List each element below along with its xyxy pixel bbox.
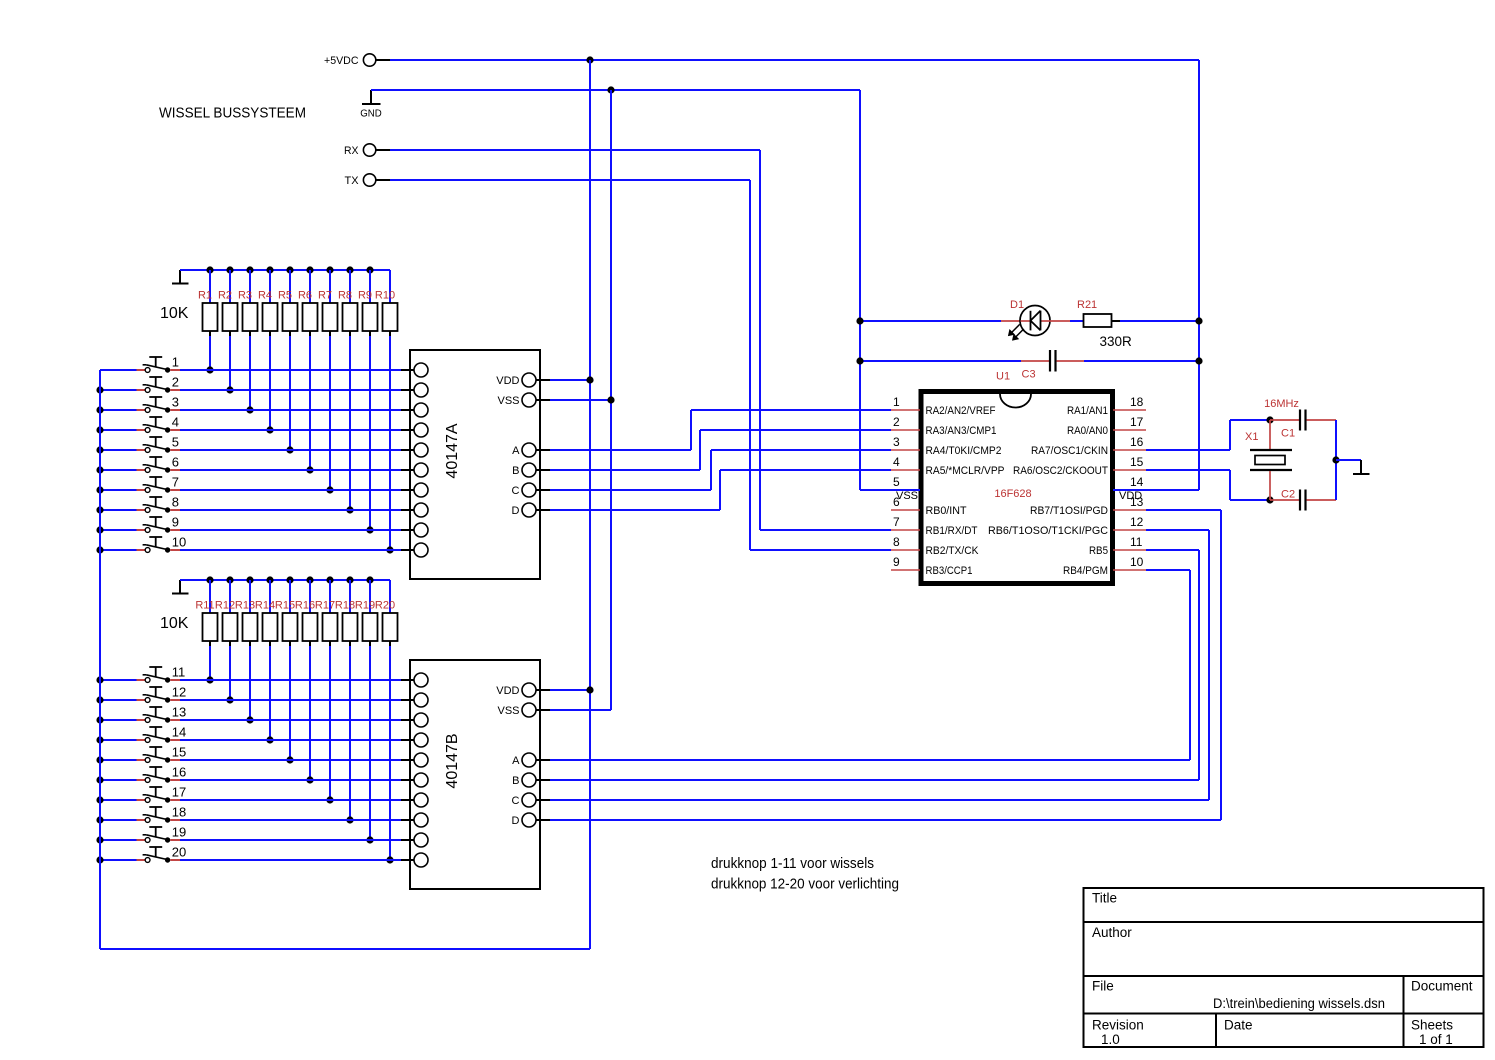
svg-text:16: 16 [172, 765, 186, 780]
wire U1 pin 15 to crystal bottom node [1146, 470, 1270, 500]
svg-text:18: 18 [1130, 395, 1144, 409]
svg-text:C1: C1 [1281, 428, 1295, 440]
svg-text:R18: R18 [335, 600, 355, 612]
svg-text:3: 3 [893, 435, 900, 449]
wire +5V vertical right x1199 [1198, 60, 1200, 490]
svg-text:D1: D1 [1010, 299, 1024, 311]
junction R12 / switch row 12 [226, 696, 233, 703]
svg-text:drukknop 1-11 voor wissels: drukknop 1-11 voor wissels [711, 855, 874, 872]
wire resistor bank A top bus [180, 269, 390, 271]
junction GND / x611 [607, 86, 614, 93]
connector TX [345, 174, 391, 187]
resistor R15 10K [275, 580, 298, 760]
pushbutton switch 10 [137, 537, 181, 553]
svg-text:RA6/OSC2/CKOOUT: RA6/OSC2/CKOOUT [1013, 465, 1108, 477]
svg-text:B: B [512, 465, 519, 477]
svg-text:17: 17 [1130, 415, 1144, 429]
wire switch 10 row to encoder [180, 549, 401, 551]
junction R3 / switch row 3 [246, 406, 253, 413]
encoder 40147B input pin 17 [401, 793, 428, 807]
encoder 40147B input pin 12 [401, 693, 428, 707]
pushbutton switch 7 [137, 477, 181, 493]
junction left bus / row 6 [96, 466, 103, 473]
svg-text:RB4/PGM: RB4/PGM [1063, 565, 1108, 577]
wire switch 16 left to bus [100, 779, 137, 781]
wire TX into U1 pin 8 [750, 549, 891, 551]
capacitor C2 [1270, 489, 1336, 511]
wire switch 2 row to encoder [180, 389, 401, 391]
svg-text:R19: R19 [355, 600, 375, 612]
wire bottom rail [100, 948, 590, 950]
pushbutton switch 16 [137, 767, 181, 783]
junction bus / R12 [226, 576, 233, 583]
svg-text:1: 1 [893, 395, 900, 409]
svg-text:RB0/INT: RB0/INT [926, 505, 967, 517]
pushbutton switch 13 [137, 707, 181, 723]
svg-text:16: 16 [1130, 435, 1144, 449]
junction +5VDC / x590 [586, 56, 593, 63]
svg-text:GND: GND [360, 108, 382, 120]
wire C3 to +5V [1084, 360, 1199, 362]
junction R15 / switch row 15 [286, 756, 293, 763]
wire switch 4 left to bus [100, 429, 137, 431]
U1 pin 17 stub [1113, 415, 1146, 430]
junction crystal ground node [1332, 456, 1339, 463]
pushbutton switch 1 [137, 357, 181, 373]
svg-text:RB6/T1OSO/T1CKI/PGC: RB6/T1OSO/T1CKI/PGC [988, 525, 1108, 537]
wire GND vertical x611 [610, 90, 612, 710]
wire bus corner down to R10 [389, 270, 391, 303]
wire switch 6 left to bus [100, 469, 137, 471]
encoder 40147B pin D [512, 813, 550, 827]
wire switch 7 row to encoder [180, 489, 401, 491]
junction R7 / switch row 7 [326, 486, 333, 493]
svg-text:C3: C3 [1022, 369, 1036, 381]
resistor R16 10K [295, 580, 318, 780]
encoder 40147A input pin 6 [401, 463, 428, 477]
svg-text:D: D [512, 505, 520, 517]
pushbutton switch 15 [137, 747, 181, 763]
svg-text:14: 14 [172, 725, 186, 740]
pushbutton switch 19 [137, 827, 181, 843]
encoder 40147B pin A [512, 753, 550, 767]
resistor R2 10K [218, 270, 238, 390]
svg-text:VSS: VSS [497, 395, 519, 407]
encoder 40147A input pin 10 [401, 543, 428, 557]
wire 40147A output D to PIC pin 4 [550, 470, 891, 510]
svg-text:drukknop 12-20 voor verlichtin: drukknop 12-20 voor verlichting [711, 876, 899, 893]
wire left common bus vertical [99, 370, 101, 949]
junction left bus / row 3 [96, 406, 103, 413]
svg-text:VDD: VDD [496, 375, 519, 387]
resistor R13 10K [235, 580, 258, 720]
resistor R6 10K [298, 270, 318, 470]
junction R20 / switch row 20 [386, 856, 393, 863]
junction bus / R14 [266, 576, 273, 583]
junction bus / R17 [326, 576, 333, 583]
svg-text:15: 15 [172, 745, 186, 760]
microcontroller U1 16F628 body [921, 392, 1113, 584]
junction R2 / switch row 2 [226, 386, 233, 393]
wire switch 12 left to bus [100, 699, 137, 701]
junction bus / R16 [306, 576, 313, 583]
junction left bus / row 17 [96, 796, 103, 803]
wire switch 5 row to encoder [180, 449, 401, 451]
encoder 40147B input pin 11 [401, 673, 428, 687]
U1 pin 2 stub [891, 415, 920, 430]
svg-text:R5: R5 [278, 290, 292, 302]
svg-text:3: 3 [172, 395, 179, 410]
U1 pin 15 stub [1113, 455, 1146, 470]
U1 pin 5 stub [893, 475, 900, 489]
encoder 40147A input pin 3 [401, 403, 428, 417]
junction bus / R2 [226, 266, 233, 273]
wire switch 1 row to encoder [180, 369, 401, 371]
junction left bus / row 7 [96, 486, 103, 493]
svg-text:Author: Author [1092, 925, 1132, 940]
svg-text:11: 11 [172, 665, 186, 680]
svg-text:10: 10 [172, 535, 186, 550]
wire 40147A output B to PIC pin 2 [550, 430, 891, 470]
pushbutton switch 9 [137, 517, 181, 533]
svg-text:RA7/OSC1/CKIN: RA7/OSC1/CKIN [1031, 445, 1108, 457]
svg-text:R3: R3 [238, 290, 252, 302]
svg-text:R2: R2 [218, 290, 232, 302]
title block frame [1084, 888, 1484, 1047]
wire switch 13 row to encoder [180, 719, 401, 721]
svg-text:R12: R12 [215, 600, 235, 612]
crystal X1 16MHz [1245, 398, 1299, 500]
svg-text:R4: R4 [258, 290, 272, 302]
pushbutton switch 4 [137, 417, 181, 433]
svg-text:VSS: VSS [497, 705, 519, 717]
encoder 40147B pin VSS [497, 703, 550, 717]
svg-text:R6: R6 [298, 290, 312, 302]
junction bus / R5 [286, 266, 293, 273]
svg-text:X1: X1 [1245, 431, 1258, 443]
junction bus / R7 [326, 266, 333, 273]
junction R11 / switch row 11 [206, 676, 213, 683]
resistor R7 10K [318, 270, 338, 490]
svg-text:10: 10 [1130, 555, 1144, 569]
wire TX horizontal [390, 179, 750, 181]
pushbutton switch 6 [137, 457, 181, 473]
svg-text:12: 12 [1130, 515, 1144, 529]
svg-text:17: 17 [172, 785, 186, 800]
U1 pin 1 stub [891, 395, 920, 410]
wire bus corner down to R20 [389, 580, 391, 613]
svg-text:Date: Date [1224, 1018, 1253, 1033]
svg-text:R10: R10 [375, 290, 395, 302]
encoder 40147A pin B [512, 463, 550, 477]
svg-text:Document: Document [1411, 979, 1473, 994]
resistor R11 10K [195, 580, 217, 680]
junction left bus / row 4 [96, 426, 103, 433]
wire +5V to U1 VDD pin 14 [1113, 489, 1199, 491]
junction +5V vertical / R21 row [1195, 317, 1202, 324]
svg-text:7: 7 [172, 475, 179, 490]
pushbutton switch 20 [137, 847, 181, 863]
resistor R21 330R [1077, 299, 1120, 327]
junction R16 / switch row 16 [306, 776, 313, 783]
svg-text:9: 9 [893, 555, 900, 569]
encoder 40147B input pin 20 [401, 853, 428, 867]
U1 pin 8 stub [891, 535, 920, 550]
U1 pin 18 stub [1113, 395, 1146, 410]
junction R5 / switch row 5 [286, 446, 293, 453]
capacitor C1 [1270, 410, 1336, 440]
wire switch 7 left to bus [100, 489, 137, 491]
svg-text:C2: C2 [1281, 489, 1295, 501]
U1 pin 13 stub [1113, 495, 1146, 510]
encoder 40147A pin A [512, 443, 550, 457]
svg-text:7: 7 [893, 515, 900, 529]
svg-text:Revision: Revision [1092, 1018, 1144, 1033]
svg-text:VSS: VSS [896, 490, 918, 502]
svg-text:1.0: 1.0 [1101, 1032, 1120, 1047]
svg-text:RB5: RB5 [1089, 545, 1108, 557]
connector +5VDC [324, 54, 390, 67]
U1 pin 14 stub [1130, 475, 1144, 489]
junction left bus / row 16 [96, 776, 103, 783]
junction R1 / switch row 1 [206, 366, 213, 373]
junction left bus / row 5 [96, 446, 103, 453]
svg-text:1 of 1: 1 of 1 [1419, 1032, 1453, 1047]
wire switch 11 left to bus [100, 679, 137, 681]
svg-text:10K: 10K [160, 615, 189, 632]
junction R4 / switch row 4 [266, 426, 273, 433]
U1 pin 7 stub [891, 515, 920, 530]
svg-text:14: 14 [1130, 475, 1144, 489]
resistor R12 10K [215, 580, 238, 700]
wire switch 20 left to bus [100, 859, 137, 861]
pushbutton switch 8 [137, 497, 181, 513]
capacitor C3 [1021, 350, 1084, 381]
pushbutton switch 17 [137, 787, 181, 803]
junction left bus / row 15 [96, 756, 103, 763]
svg-text:9: 9 [172, 515, 179, 530]
svg-text:R17: R17 [315, 600, 335, 612]
encoder 40147A input pin 9 [401, 523, 428, 537]
wire switch 1 left to bus [100, 369, 137, 371]
wire switch 6 row to encoder [180, 469, 401, 471]
U1 pin 6 stub [891, 495, 920, 510]
svg-text:4: 4 [893, 455, 900, 469]
junction bus / R11 [206, 576, 213, 583]
svg-text:D: D [512, 815, 520, 827]
pushbutton switch 5 [137, 437, 181, 453]
junction left bus / row 11 [96, 676, 103, 683]
junction bus / R3 [246, 266, 253, 273]
svg-text:RB3/CCP1: RB3/CCP1 [926, 565, 973, 577]
svg-text:R1: R1 [198, 290, 212, 302]
svg-text:5: 5 [893, 475, 900, 489]
junction R10 / switch row 10 [386, 546, 393, 553]
wire switch 16 row to encoder [180, 779, 401, 781]
wire switch 8 left to bus [100, 509, 137, 511]
junction R19 / switch row 19 [366, 836, 373, 843]
encoder 40147A input pin 2 [401, 383, 428, 397]
wire 40147A VDD to +5V [550, 379, 590, 381]
wire switch 5 left to bus [100, 449, 137, 451]
junction crystal top node [1266, 416, 1273, 423]
wire resistor bank B top bus [180, 579, 390, 581]
encoder 40147A pin C [512, 483, 550, 497]
encoder 40147B pin B [512, 773, 550, 787]
junction +5V vertical / C3 row [1195, 357, 1202, 364]
wire switch 4 row to encoder [180, 429, 401, 431]
svg-text:RB2/TX/CK: RB2/TX/CK [926, 545, 980, 557]
svg-text:13: 13 [172, 705, 186, 720]
U1 pin 16 stub [1113, 435, 1146, 450]
resistor R1 10K [198, 270, 218, 370]
svg-text:RX: RX [344, 145, 359, 157]
wire 40147B output A to PIC pin 10 [550, 570, 1190, 760]
junction left bus / row 2 [96, 386, 103, 393]
encoder 40147A input pin 5 [401, 443, 428, 457]
resistor R8 10K [338, 270, 358, 510]
junction R18 / switch row 18 [346, 816, 353, 823]
svg-text:File: File [1092, 979, 1114, 994]
ground symbol crystal [1353, 460, 1370, 474]
junction R14 / switch row 14 [266, 736, 273, 743]
junction 40147A VDD [586, 376, 593, 383]
wire switch 19 row to encoder [180, 839, 401, 841]
junction 40147B VDD [586, 686, 593, 693]
junction R8 / switch row 8 [346, 506, 353, 513]
junction left bus / row 19 [96, 836, 103, 843]
junction R13 / switch row 13 [246, 716, 253, 723]
wire 40147B VSS to GND [550, 709, 611, 711]
svg-text:6: 6 [172, 455, 179, 470]
junction left bus / row 13 [96, 716, 103, 723]
U1 pin 3 stub [891, 435, 920, 450]
encoder 40147B input pin 19 [401, 833, 428, 847]
pushbutton switch 18 [137, 807, 181, 823]
junction bus / R19 [366, 576, 373, 583]
svg-text:R13: R13 [235, 600, 255, 612]
wire switch 13 left to bus [100, 719, 137, 721]
resistor R4 10K [258, 270, 278, 430]
wire switch 8 row to encoder [180, 509, 401, 511]
resistor R5 10K [278, 270, 298, 450]
svg-text:40147A: 40147A [444, 423, 461, 478]
ground symbol resistor bank B [172, 580, 189, 594]
resistor R3 10K [238, 270, 258, 410]
svg-text:16MHz: 16MHz [1264, 398, 1299, 410]
wire switch 11 row to encoder [180, 679, 401, 681]
svg-text:330R: 330R [1100, 334, 1133, 349]
wire to crystal ground [1336, 459, 1361, 461]
wire switch 14 left to bus [100, 739, 137, 741]
svg-text:R8: R8 [338, 290, 352, 302]
wire 40147A output C to PIC pin 3 [550, 450, 891, 490]
encoder 40147A input pin 4 [401, 423, 428, 437]
svg-text:R9: R9 [358, 290, 372, 302]
junction left bus / row 18 [96, 816, 103, 823]
svg-text:RA0/AN0: RA0/AN0 [1067, 425, 1108, 437]
svg-text:VDD: VDD [496, 685, 519, 697]
wire GND branch to C3 row [860, 360, 1021, 362]
svg-text:10K: 10K [160, 305, 189, 322]
encoder 40147B input pin 15 [401, 753, 428, 767]
wire C1/C2 right vertical [1335, 420, 1337, 500]
svg-text:15: 15 [1130, 455, 1144, 469]
encoder IC 40147A body [410, 350, 540, 579]
svg-text:5: 5 [172, 435, 179, 450]
wire switch 18 left to bus [100, 819, 137, 821]
svg-text:2: 2 [893, 415, 900, 429]
wire GND rail [371, 89, 860, 91]
junction bus / R8 [346, 266, 353, 273]
svg-text:RA5/*MCLR/VPP: RA5/*MCLR/VPP [926, 465, 1005, 477]
U1 pin 4 stub [891, 455, 920, 470]
svg-text:4: 4 [172, 415, 179, 430]
svg-text:U1: U1 [996, 371, 1010, 383]
svg-text:R15: R15 [275, 600, 295, 612]
junction left bus / row 8 [96, 506, 103, 513]
junction bus / R13 [246, 576, 253, 583]
wire +5VDC rail [390, 59, 1199, 61]
wire U1 pin 16 to crystal top node [1146, 420, 1270, 450]
wire switch 3 left to bus [100, 409, 137, 411]
wire 40147B output D to PIC pin 13 [550, 510, 1221, 820]
junction left bus / row 12 [96, 696, 103, 703]
wire D1 to R21 [1070, 320, 1084, 322]
junction R17 / switch row 17 [326, 796, 333, 803]
svg-text:WISSEL BUSSYSTEEM: WISSEL BUSSYSTEEM [159, 105, 306, 122]
wire +5V vertical x590 [589, 60, 591, 949]
svg-text:16F628: 16F628 [994, 488, 1031, 500]
LED D1 [1001, 299, 1070, 340]
wire RX horizontal [390, 149, 760, 151]
U1 pin 10 stub [1113, 555, 1146, 570]
svg-text:RB1/RX/DT: RB1/RX/DT [926, 525, 978, 537]
svg-text:C: C [512, 485, 520, 497]
wire GND to U1 VSS pin 5 [860, 489, 920, 491]
svg-text:R20: R20 [375, 600, 395, 612]
junction R9 / switch row 9 [366, 526, 373, 533]
svg-text:R11: R11 [195, 600, 214, 612]
svg-text:R14: R14 [255, 600, 275, 612]
svg-text:12: 12 [172, 685, 186, 700]
junction bus / R15 [286, 576, 293, 583]
pushbutton switch 11 [137, 667, 181, 683]
encoder 40147A pin D [512, 503, 550, 517]
ground symbol resistor bank A [172, 270, 189, 284]
junction x860 / C3 row [856, 357, 863, 364]
svg-text:R21: R21 [1077, 299, 1097, 311]
svg-text:A: A [512, 445, 520, 457]
junction x860 / LED row [856, 317, 863, 324]
U1 pin 11 stub [1113, 535, 1146, 550]
pushbutton switch 14 [137, 727, 181, 743]
wire GND branch to LED row [860, 320, 1001, 322]
svg-text:18: 18 [172, 805, 186, 820]
junction bus / R18 [346, 576, 353, 583]
wire RX into U1 pin 7 [760, 529, 891, 531]
wire 40147B output C to PIC pin 12 [550, 530, 1209, 800]
svg-text:40147B: 40147B [444, 733, 461, 788]
svg-text:C: C [512, 795, 520, 807]
resistor R14 10K [255, 580, 278, 740]
encoder 40147B pin C [512, 793, 550, 807]
svg-text:TX: TX [345, 175, 360, 187]
U1 top notch [1000, 394, 1031, 408]
svg-text:R7: R7 [318, 290, 332, 302]
svg-text:Sheets: Sheets [1411, 1018, 1453, 1033]
wire switch 17 left to bus [100, 799, 137, 801]
